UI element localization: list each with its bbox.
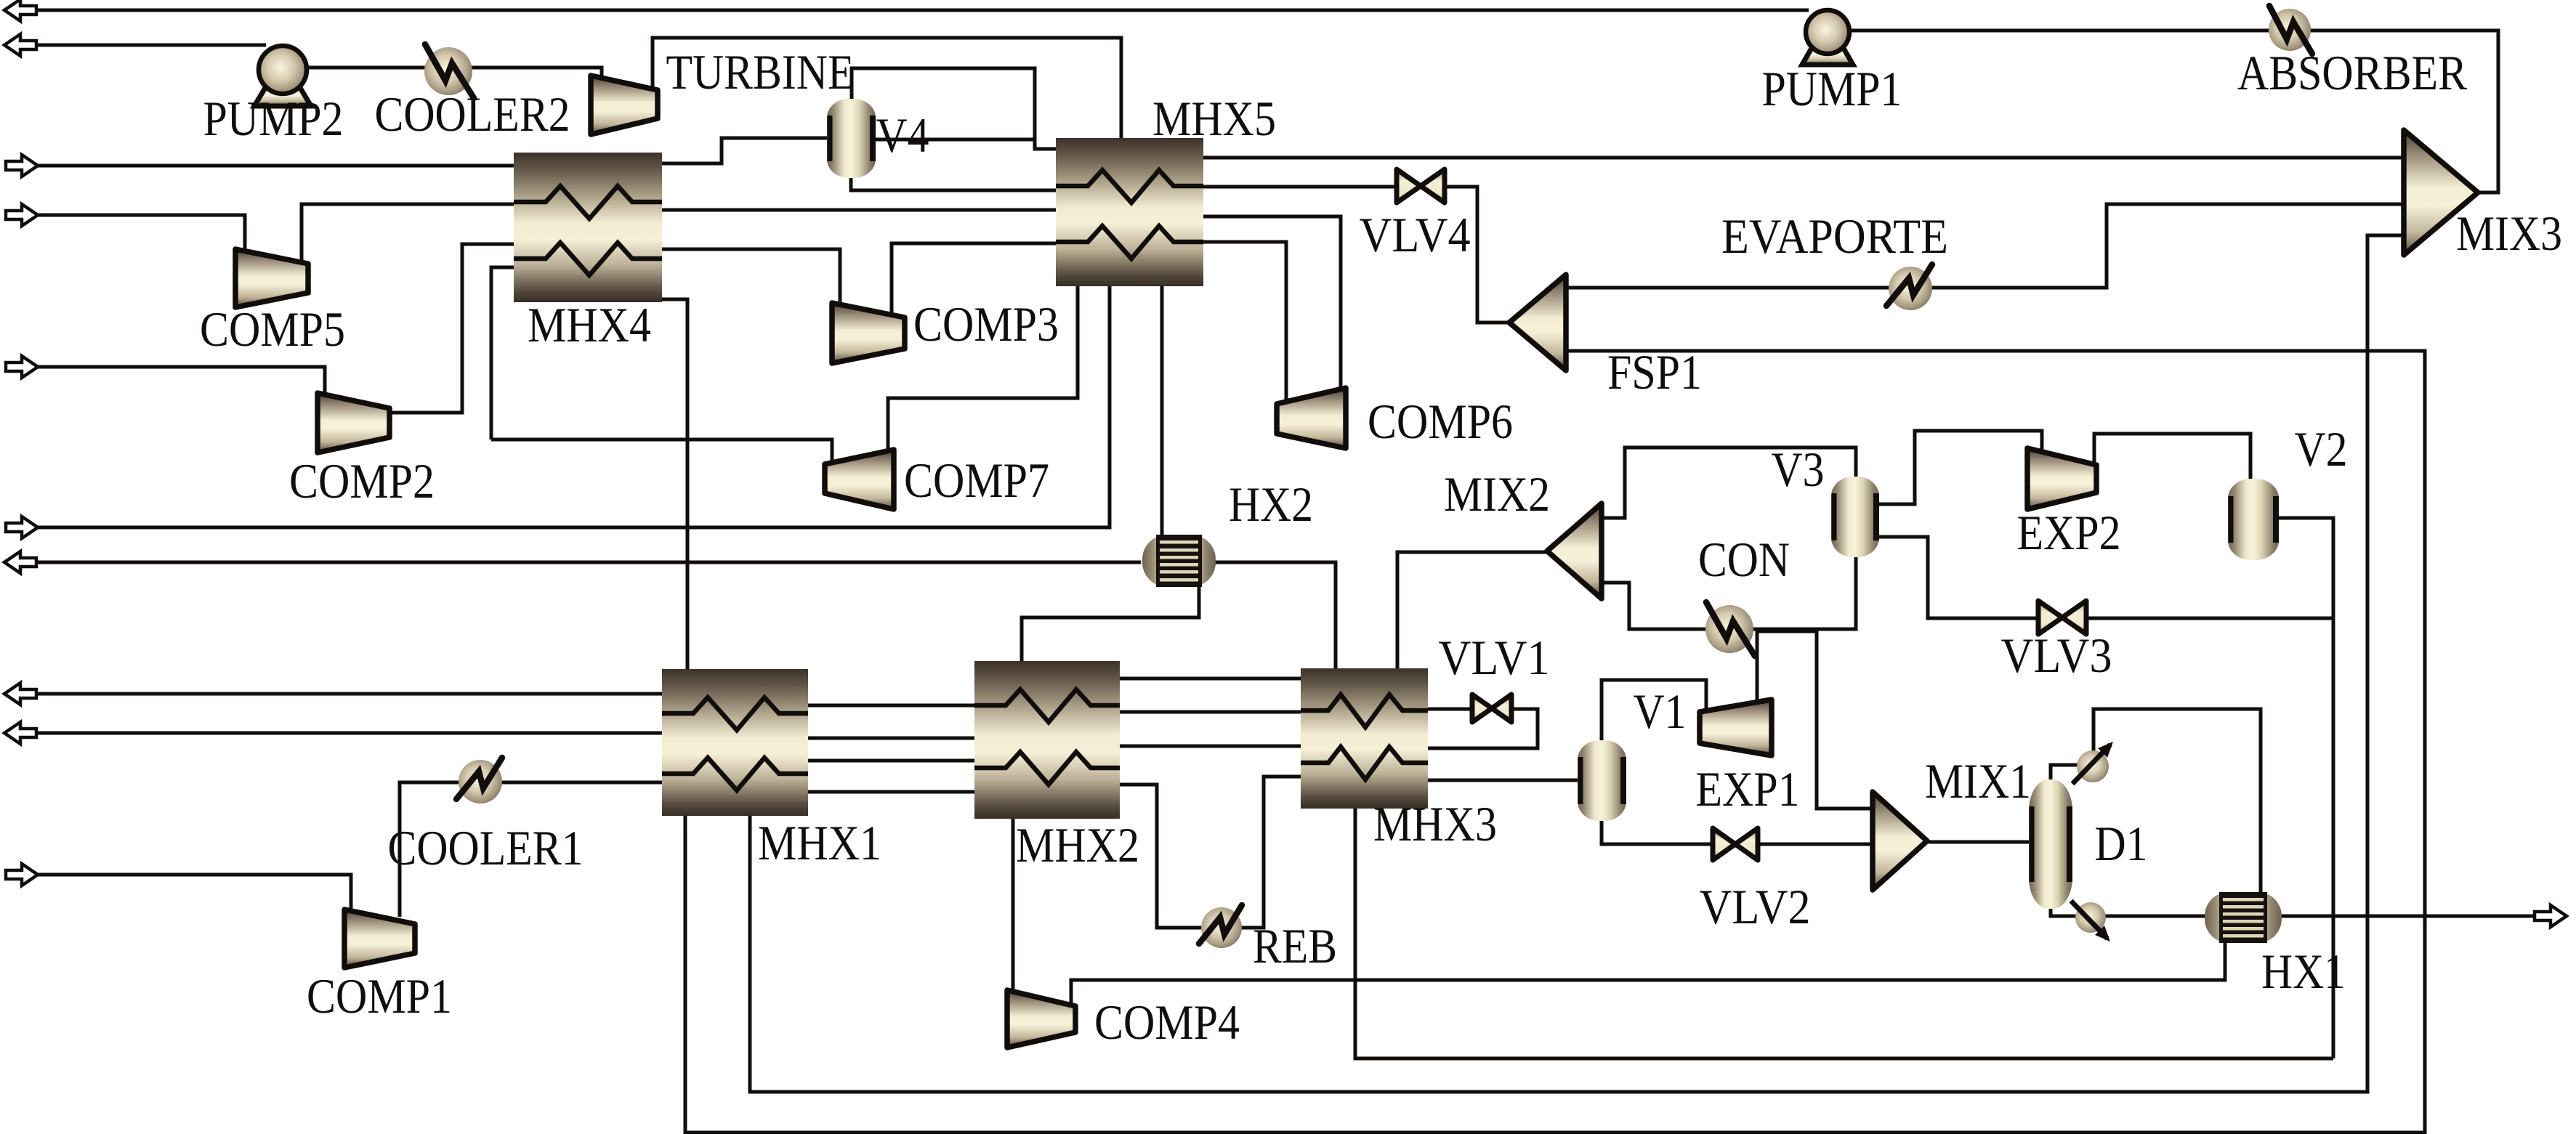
condenser circle of D1 <box>2077 750 2109 782</box>
wire MHX2-MHX3 stream1 <box>1118 677 1302 681</box>
compressor COMP5 <box>235 249 308 307</box>
wire V1 top to EXP1 inlet <box>1602 680 1706 742</box>
reboiler REB <box>1201 907 1242 948</box>
valve VLV2 <box>1713 828 1735 860</box>
wire V2 right outlet down to bottom bus <box>2277 518 2333 1058</box>
svg-text:TURBINE: TURBINE <box>666 44 855 100</box>
svg-text:COOLER2: COOLER2 <box>375 86 570 142</box>
svg-text:REB: REB <box>1253 918 1337 973</box>
wire MHX3 right port3 to V1 inlet <box>1426 779 1579 782</box>
stream arrow left outlet 9 <box>4 722 36 744</box>
svg-text:COMP2: COMP2 <box>289 453 435 509</box>
wire CON to V3 bottom <box>1753 556 1856 629</box>
wire MHX1 bottom via bus to MIX3 input3 <box>750 235 2404 1092</box>
stream arrow left feed 6 <box>6 517 38 538</box>
heat-exchanger MHX5 <box>1056 138 1203 286</box>
wire COMP6 outlet to MHX5 right port4 <box>1202 242 1286 400</box>
svg-text:HX1: HX1 <box>2261 944 2346 999</box>
wire riser to MHX4 left port4 <box>491 267 515 440</box>
svg-text:HX2: HX2 <box>1229 477 1313 532</box>
svg-text:COOLER1: COOLER1 <box>388 820 584 875</box>
valve VLV4 <box>1397 169 1421 203</box>
mixer MIX2 <box>1547 503 1602 599</box>
svg-text:MHX1: MHX1 <box>758 815 881 870</box>
svg-text:V4: V4 <box>876 108 929 163</box>
pump PUMP1 <box>1802 41 1853 65</box>
svg-text:MHX5: MHX5 <box>1152 91 1276 146</box>
compressor COMP7 <box>825 450 894 509</box>
svg-text:COMP4: COMP4 <box>1094 995 1240 1050</box>
wire MHX1-MHX2 stream3 <box>807 759 976 763</box>
pump PUMP2 <box>254 79 311 106</box>
stream arrow left outlet 7 <box>4 551 36 573</box>
compressor COMP4 <box>1007 990 1075 1048</box>
svg-text:V2: V2 <box>2295 421 2348 477</box>
column D1 <box>2029 779 2072 909</box>
wire HX1 to right outlet product <box>2280 915 2543 918</box>
wire reboiler circle to HX1 <box>2104 915 2206 918</box>
wire COMP5 outlet to MHX4 left port2 <box>302 204 515 260</box>
wire EXP1 outlet to MIX1 input1 <box>1757 631 1874 809</box>
wire V3 right to EXP2 inlet <box>1878 431 2042 504</box>
svg-text:COMP5: COMP5 <box>200 301 345 357</box>
wire MHX3 right port1 to VLV1 <box>1426 708 1475 711</box>
svg-text:PUMP1: PUMP1 <box>1762 61 1902 116</box>
expander EXP2 <box>2027 448 2096 509</box>
svg-text:MHX4: MHX4 <box>528 297 651 352</box>
svg-text:EVAPORTE: EVAPORTE <box>1721 208 1948 264</box>
expander EXP1 <box>1700 700 1772 756</box>
wire MHX1-MHX2 stream1 <box>807 704 976 708</box>
svg-text:MIX1: MIX1 <box>1925 753 2031 809</box>
vessel V4 <box>827 99 876 178</box>
wire VLV2 to MIX1 input2 <box>1756 843 1874 846</box>
valve VLV1 <box>1472 694 1492 722</box>
heat-exchanger MHX3 <box>1301 668 1428 809</box>
svg-text:VLV3: VLV3 <box>2001 628 2112 683</box>
wire MHX5 bottom to left feed6 <box>33 285 1110 527</box>
stream arrow left outlet 2 <box>4 34 36 56</box>
stream arrow left outlet 8 <box>4 683 36 705</box>
wire V4 right outlet stub <box>874 138 1035 142</box>
wire COMP1 outlet through COOLER1 to MHX1 <box>400 782 663 917</box>
evaporator EVAPORTE <box>1889 267 1932 310</box>
compressor COMP2 <box>318 393 389 453</box>
svg-text:MIX3: MIX3 <box>2456 206 2562 261</box>
wire COMP7 outlet to MHX5 bottom <box>888 285 1078 452</box>
heat-exchanger HX2 <box>1142 535 1216 587</box>
svg-text:V1: V1 <box>1634 684 1687 739</box>
svg-text:MHX2: MHX2 <box>1016 817 1139 872</box>
splitter FSP1 <box>1509 275 1566 370</box>
svg-text:FSP1: FSP1 <box>1607 344 1702 400</box>
wire VLV4 to FSP1 inlet <box>1443 187 1511 323</box>
wire MHX5 right port1 to MIX3 input1 <box>1202 156 2404 160</box>
wire VLV3 to V2 riser <box>2085 617 2333 620</box>
wire COMP3 outlet to MHX5 left port4 <box>892 243 1057 316</box>
wire MHX4 bottom outlet to MHX1 top <box>661 299 687 671</box>
cooler COOLER2 <box>424 47 472 95</box>
wire D1 bottom to reboiler circle <box>2051 907 2077 916</box>
wire MHX1 left outlet to left arrow8 <box>33 692 663 696</box>
cooler COOLER1 <box>459 760 502 803</box>
stream arrow left outlet 1 <box>4 0 36 21</box>
wire EXP2 outlet to V2 top <box>2094 434 2250 480</box>
vessel V1 <box>1578 740 1626 821</box>
vessel V2 <box>2228 479 2279 560</box>
mixer MIX1 <box>1873 792 1927 890</box>
wire REB to MHX3 left port4 <box>1240 777 1302 928</box>
wire MHX4 right port3 to COMP3 inlet <box>661 249 840 304</box>
wire condenser loop to HX1 top <box>2093 709 2261 894</box>
wire MHX4 loop to COMP7 inlet <box>491 440 832 463</box>
wire MHX4 right port1 to V4 inlet <box>661 138 828 163</box>
heat-exchanger MHX1 <box>662 669 808 816</box>
svg-text:VLV4: VLV4 <box>1360 207 1471 262</box>
wire feed4 to COMP5 inlet <box>33 215 245 252</box>
wire FSP1 top outlet through EVAPORTE to MIX3 input2 <box>1567 204 2404 288</box>
wire HX2 bottom to MHX2 top <box>1022 586 1199 663</box>
wire MHX5 bottom to HX2 top <box>1160 285 1164 536</box>
turbine TURBINE <box>591 76 658 134</box>
wire TURBINE exhaust to MHX5 top <box>653 38 1121 140</box>
wire MHX5 right port2 to VLV4 <box>1202 185 1399 189</box>
condenser CON <box>1705 605 1753 653</box>
wire V1 bottom to VLV2 <box>1602 819 1715 844</box>
wire HX2 left to left outlet7 <box>33 561 1141 564</box>
wire MHX1-MHX2 stream4 <box>807 790 976 794</box>
svg-text:D1: D1 <box>2095 816 2148 871</box>
wire COMP2 outlet to MHX4 left port3 <box>389 244 515 413</box>
wire VLV1 return to MHX3 right port2 <box>1426 709 1538 748</box>
heat-exchanger MHX4 <box>514 153 662 302</box>
stream arrow right product outlet <box>2535 905 2567 927</box>
wire V3 lower right to VLV3 <box>1878 537 2040 618</box>
wire MHX2-MHX3 stream3 <box>1118 745 1302 748</box>
svg-text:ABSORBER: ABSORBER <box>2237 45 2468 100</box>
heat-exchanger MHX2 <box>974 661 1120 819</box>
mixer MIX3 <box>2404 130 2478 255</box>
wire MHX4 right port2 to MHX5 left port3 <box>661 208 1057 212</box>
wire feed5 to COMP2 inlet <box>33 367 325 396</box>
svg-text:VLV1: VLV1 <box>1439 630 1550 685</box>
svg-text:CON: CON <box>1698 532 1790 587</box>
stream arrow left feed 4 <box>6 204 38 226</box>
svg-text:COMP6: COMP6 <box>1368 394 1513 449</box>
svg-text:COMP3: COMP3 <box>913 296 1059 352</box>
wire MHX5 right port3 to COMP6 inlet <box>1202 216 1341 390</box>
wire MHX2 bottom to COMP4 inlet <box>1012 817 1015 992</box>
wire MIX3 outlet to ABSORBER to PUMP1 <box>1852 31 2498 193</box>
wire MHX2 right port4 to REB <box>1118 785 1203 928</box>
stream arrow left feed 10 <box>6 864 38 886</box>
compressor COMP1 <box>344 910 415 968</box>
stream arrow left feed 5 <box>6 356 38 378</box>
svg-text:EXP2: EXP2 <box>2017 505 2121 560</box>
wire HX2 right to MHX3 top port1 <box>1214 562 1336 670</box>
wire PUMP2 to COOLER2 to TURBINE <box>305 68 602 80</box>
svg-text:EXP1: EXP1 <box>1696 761 1800 817</box>
svg-text:PUMP2: PUMP2 <box>203 91 344 146</box>
wire FSP1 bottom outlet via bottom bus to MHX1 bottom <box>685 351 2425 1133</box>
wire COMP4 outlet to HX1 bottom <box>1071 941 2225 1008</box>
svg-text:V3: V3 <box>1772 442 1825 497</box>
wire D1 top to condenser circle <box>2051 765 2081 781</box>
compressor COMP6 <box>1277 388 1346 448</box>
wire feed10 to COMP1 inlet <box>33 875 351 911</box>
stream arrow left feed 3 <box>6 155 38 177</box>
wire MIX2 input2 from CON <box>1603 583 1708 629</box>
wire MIX3-ABSORBER-PUMP1 product to left-top outlet <box>33 9 1809 12</box>
heat-exchanger HX1 <box>2205 892 2282 943</box>
svg-text:MIX2: MIX2 <box>1444 466 1550 522</box>
reboiler circle of D1 <box>2075 902 2106 933</box>
svg-text:COMP1: COMP1 <box>307 968 452 1024</box>
wire V3 top to MIX2 input1 <box>1603 447 1856 518</box>
wire MIX2 outlet to MHX3 top port2 <box>1397 552 1549 670</box>
svg-text:MHX3: MHX3 <box>1373 796 1497 851</box>
absorber ABSORBER <box>2269 9 2311 51</box>
wire MHX1-MHX2 stream2 <box>807 737 976 740</box>
svg-text:VLV2: VLV2 <box>1700 879 1811 934</box>
wire MHX1 left outlet to left arrow9 <box>33 732 663 735</box>
wire V4 bottom outlet to MHX5 left port2 <box>851 177 1057 190</box>
wire MHX3 bottom to bus to V2 riser <box>1355 807 2333 1058</box>
wire MHX2-MHX3 stream2 <box>1118 710 1302 714</box>
valve VLV3 <box>2038 601 2062 634</box>
wire V4 top outlet to MHX5 left port1 <box>852 68 1057 149</box>
compressor COMP3 <box>832 303 905 363</box>
wire feed3 to MHX4 left port1 <box>33 164 515 168</box>
svg-text:COMP7: COMP7 <box>904 453 1049 508</box>
wire MIX1 outlet to D1 <box>1926 841 2030 844</box>
vessel V3 <box>1831 477 1879 557</box>
wire feed to PUMP2 <box>33 44 266 47</box>
